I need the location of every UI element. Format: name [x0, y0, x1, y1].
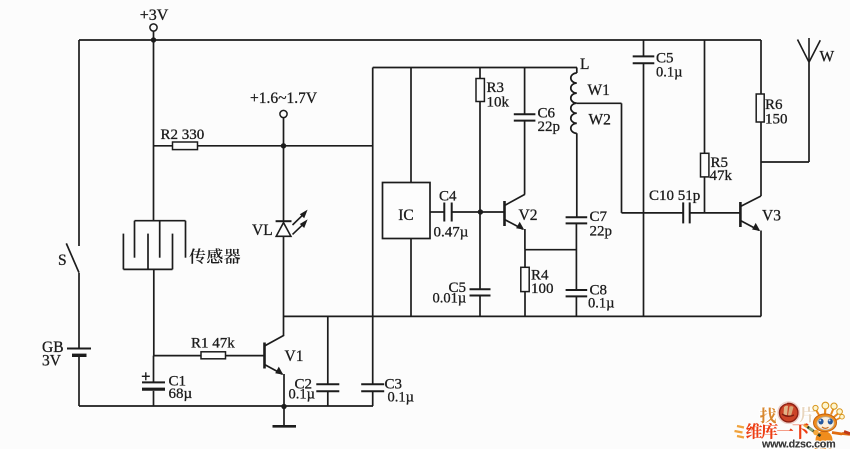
svg-text:0.1µ: 0.1µ	[388, 390, 414, 406]
svg-text:0.1µ: 0.1µ	[588, 296, 614, 312]
svg-text:0.01µ: 0.01µ	[433, 291, 467, 307]
svg-text:47k: 47k	[710, 168, 733, 184]
svg-text:10k: 10k	[487, 95, 510, 111]
svg-text:3V: 3V	[42, 353, 62, 370]
svg-text:100: 100	[531, 281, 554, 297]
svg-text:W: W	[820, 49, 835, 66]
svg-text:0.1µ: 0.1µ	[289, 387, 315, 403]
svg-text:W1: W1	[588, 82, 610, 99]
svg-text:+1.6~1.7V: +1.6~1.7V	[250, 90, 318, 107]
svg-text:68µ: 68µ	[169, 386, 193, 402]
svg-text:22p: 22p	[590, 224, 613, 240]
svg-text:V2: V2	[519, 207, 538, 224]
svg-text:L: L	[580, 56, 589, 73]
svg-text:VL: VL	[252, 222, 273, 239]
svg-text:0.1µ: 0.1µ	[656, 65, 682, 81]
svg-text:www.dzsc.com: www.dzsc.com	[761, 439, 835, 449]
svg-text:150: 150	[765, 112, 788, 128]
svg-text:IC: IC	[398, 207, 414, 224]
svg-text:C4: C4	[439, 189, 457, 205]
svg-text:C10 51p: C10 51p	[649, 188, 700, 204]
svg-text:R2 330: R2 330	[161, 127, 205, 143]
svg-text:22p: 22p	[538, 119, 561, 135]
svg-text:V3: V3	[762, 208, 781, 225]
svg-text:+3V: +3V	[140, 7, 169, 24]
svg-text:R1 47k: R1 47k	[191, 336, 235, 352]
svg-text:W2: W2	[589, 112, 611, 129]
svg-text:S: S	[58, 252, 67, 269]
svg-text:0.47µ: 0.47µ	[434, 225, 469, 241]
svg-text:V1: V1	[285, 348, 304, 365]
